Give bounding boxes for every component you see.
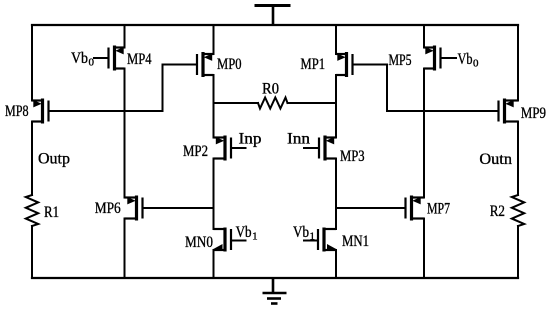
wire node to MP7 gate — [336, 207, 406, 209]
wire top rail to MP4 source — [124, 25, 126, 48]
transistor MN0 — [213, 228, 232, 252]
resistor R1 — [26, 195, 38, 226]
wire MP5 drain to MP7 source — [423, 69, 425, 198]
svg-text:R1: R1 — [44, 204, 59, 221]
wire MP5 gate to Vb0 — [441, 57, 457, 59]
wire top rail to MP0 source — [213, 25, 215, 54]
wire MP6 gate to node — [143, 207, 214, 209]
wire MP6 drain to bottom rail — [124, 219, 126, 279]
wire VDD top rail — [32, 24, 518, 26]
transistor MP2 — [214, 136, 232, 161]
svg-text:Inp: Inp — [239, 131, 262, 148]
wire Vb1 to MN1 gate — [304, 240, 318, 242]
svg-text:1: 1 — [252, 231, 258, 243]
svg-text:Outp: Outp — [38, 151, 70, 168]
wire riser to MP9 gate — [386, 65, 388, 112]
wire MP0 drain / node R0 left / MP2 source — [213, 75, 215, 138]
wire MP7 drain to bottom rail — [423, 219, 425, 279]
svg-text:Inn: Inn — [287, 131, 310, 148]
svg-text:R0: R0 — [262, 81, 279, 98]
svg-text:MP0: MP0 — [217, 56, 242, 73]
wire R2 to bottom rail — [517, 226, 519, 278]
wire MP2 gate to Inp — [231, 147, 246, 149]
svg-text:MP8: MP8 — [5, 103, 29, 120]
transistor MP0 — [197, 52, 214, 77]
wire MN0 source to bottom rail — [213, 250, 215, 278]
wire MP8 drain to R1 — [31, 122, 33, 196]
wire MP4 drain to MP6 source — [124, 69, 126, 198]
ground symbol — [263, 278, 287, 304]
wire VSS bottom rail — [32, 277, 518, 279]
svg-text:MP3: MP3 — [340, 148, 365, 165]
wire MP9 drain to R2 — [517, 122, 519, 196]
svg-text:1: 1 — [310, 231, 316, 243]
wire R0 left — [214, 102, 259, 104]
wire top rail to MP5 source — [423, 25, 425, 48]
svg-text:R2: R2 — [490, 203, 505, 220]
transistor MN1 — [318, 228, 337, 252]
svg-text:Outn: Outn — [479, 151, 512, 168]
svg-text:MP4: MP4 — [127, 51, 152, 68]
wire Vb0 to MP4 gate — [94, 57, 109, 59]
svg-text:MP6: MP6 — [95, 200, 121, 217]
svg-text:Vb: Vb — [458, 51, 473, 68]
svg-text:MP5: MP5 — [389, 52, 412, 69]
wire to MP9 gate bar — [387, 110, 499, 112]
wire to MP0 gate bar — [163, 64, 198, 66]
svg-text:MP2: MP2 — [183, 143, 208, 160]
wire R1 to bottom rail — [31, 226, 33, 278]
transistor MP5 — [424, 46, 441, 71]
transistor MP9 — [499, 99, 519, 124]
power VDD symbol — [255, 6, 291, 26]
wire MP3 drain to MN1 drain — [335, 159, 337, 230]
wire MN1 source to bottom rail — [335, 250, 337, 278]
svg-text:Vb: Vb — [71, 50, 88, 67]
wire Inn to MP3 gate — [304, 147, 319, 149]
svg-text:MP1: MP1 — [301, 56, 326, 73]
resistor R0 — [258, 98, 288, 109]
wire MN0 gate to Vb1 — [231, 240, 246, 242]
transistor MP7 — [406, 196, 425, 221]
wire R0 right — [288, 102, 337, 104]
svg-text:MN1: MN1 — [342, 233, 369, 250]
svg-text:0: 0 — [89, 57, 95, 69]
transistor MP1 — [336, 52, 353, 77]
wire left rail to MP8 source — [31, 25, 33, 101]
transistor MP3 — [319, 136, 336, 161]
wire MP1 gate run — [353, 64, 388, 66]
svg-text:MP7: MP7 — [427, 201, 450, 218]
wire MP8 gate run — [49, 110, 163, 112]
transistor MP6 — [125, 196, 143, 221]
transistor MP8 — [32, 99, 49, 124]
svg-text:MN0: MN0 — [185, 234, 213, 251]
transistor MP4 — [109, 46, 125, 71]
wire top rail to MP1 source — [335, 25, 337, 54]
svg-text:Vb: Vb — [236, 224, 252, 241]
wire MP1 drain / node R0 right / MP3 source — [335, 75, 337, 138]
svg-text:Vb: Vb — [293, 224, 309, 241]
wire riser to MP0 gate — [162, 65, 164, 112]
svg-text:MP9: MP9 — [521, 105, 546, 122]
resistor R2 — [512, 195, 524, 226]
wire right rail to MP9 source — [517, 25, 519, 101]
wire MP2 drain to MN0 drain — [213, 159, 215, 230]
svg-text:0: 0 — [473, 58, 479, 70]
